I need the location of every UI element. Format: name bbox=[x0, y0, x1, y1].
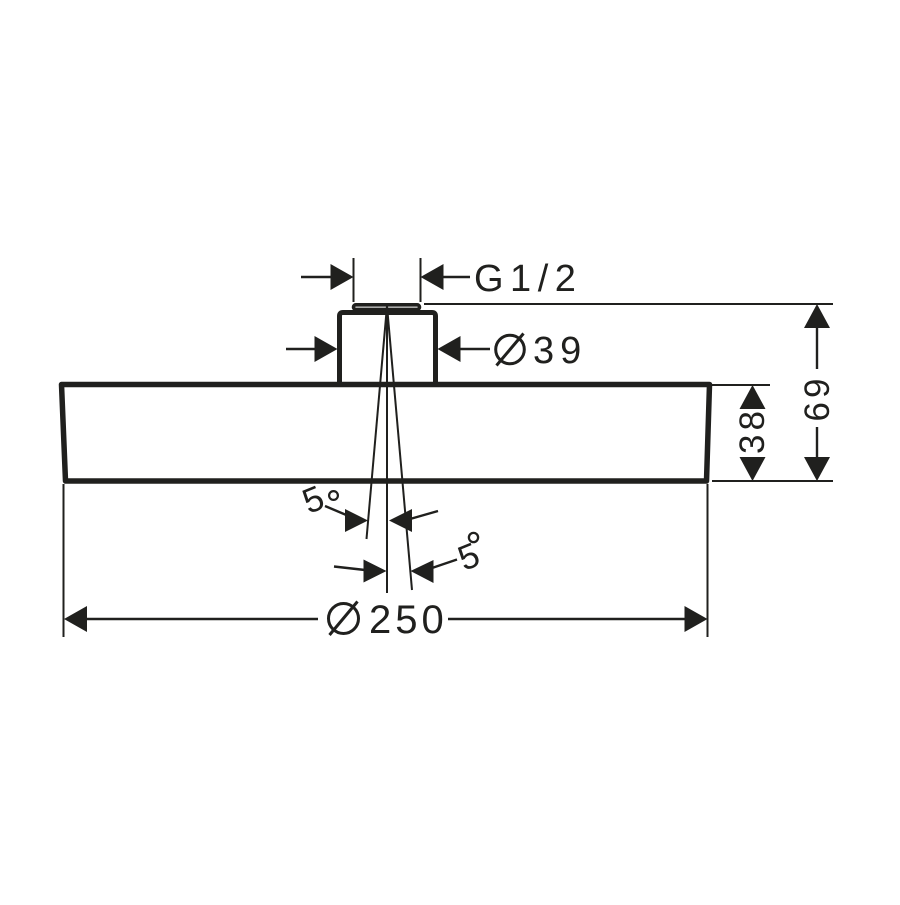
shower plate body (side view) bbox=[62, 385, 710, 482]
angle 5deg upper-right arrow bbox=[389, 509, 438, 532]
label 5deg upper-left bbox=[297, 478, 338, 521]
svg-text:250: 250 bbox=[369, 598, 448, 642]
label D39 bbox=[496, 330, 588, 372]
label 69 bbox=[798, 375, 837, 422]
top collar bbox=[354, 305, 420, 310]
dimension 38 bbox=[740, 385, 766, 481]
label D250 bbox=[329, 598, 448, 642]
dimension 69 bbox=[804, 304, 830, 481]
svg-text:39: 39 bbox=[533, 330, 587, 372]
extension line plate bottom right bbox=[712, 480, 833, 482]
angle 5deg upper-left leader bbox=[325, 506, 368, 532]
svg-text:69: 69 bbox=[798, 375, 837, 422]
svg-text:38: 38 bbox=[733, 407, 772, 454]
extension line plate top right (38) bbox=[712, 384, 770, 386]
spray line right 5deg bbox=[387, 306, 412, 590]
dimension D250 bbox=[64, 606, 708, 632]
label 5deg lower-right bbox=[453, 533, 486, 579]
angle 5deg lower-right arrow bbox=[411, 560, 458, 584]
angle 5deg lower-left arrow bbox=[334, 560, 387, 583]
svg-text:5: 5 bbox=[453, 535, 486, 578]
extension line top (69) bbox=[424, 303, 833, 305]
dimension G1/2 arrows and line bbox=[301, 264, 470, 290]
spray line left 5deg bbox=[367, 306, 388, 539]
dimension G1/2 extension lines bbox=[354, 258, 421, 302]
label 38 bbox=[733, 407, 772, 454]
dimension D39 arrows and line bbox=[286, 336, 490, 362]
label G1/2 bbox=[474, 258, 582, 300]
svg-text:5: 5 bbox=[297, 478, 330, 521]
svg-text:G1/2: G1/2 bbox=[474, 258, 582, 300]
extension lines D250 bbox=[64, 484, 708, 637]
center axis line bbox=[386, 303, 388, 593]
connector block bbox=[340, 313, 436, 385]
